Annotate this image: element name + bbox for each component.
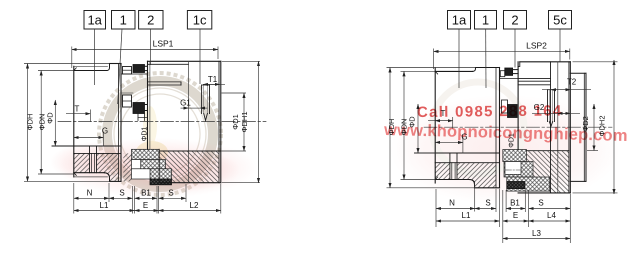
svg-text:LSP2: LSP2 — [526, 41, 547, 51]
svg-text:L1: L1 — [100, 201, 109, 210]
svg-text:L3: L3 — [532, 229, 541, 238]
svg-text:L2: L2 — [190, 201, 199, 210]
svg-text:T2: T2 — [567, 78, 577, 87]
svg-text:L4: L4 — [547, 211, 556, 220]
svg-text:Call 0985 288 164: Call 0985 288 164 — [417, 102, 563, 121]
svg-text:B1: B1 — [510, 199, 520, 208]
svg-text:E: E — [513, 211, 518, 220]
svg-text:B1: B1 — [141, 189, 151, 198]
svg-text:1: 1 — [120, 13, 127, 28]
svg-text:ΦD1: ΦD1 — [142, 127, 149, 142]
svg-text:ΦDH: ΦDH — [26, 114, 35, 131]
svg-text:S: S — [119, 189, 124, 198]
svg-text:LSP1: LSP1 — [153, 39, 174, 49]
svg-text:S: S — [168, 189, 173, 198]
svg-text:S: S — [538, 199, 543, 208]
svg-text:L1: L1 — [462, 211, 471, 220]
svg-text:E: E — [143, 201, 148, 210]
svg-text:5c: 5c — [553, 13, 567, 28]
svg-text:G: G — [102, 127, 108, 136]
svg-text:S: S — [485, 199, 490, 208]
svg-text:1a: 1a — [452, 13, 467, 28]
svg-text:1: 1 — [482, 13, 489, 28]
svg-text:ΦD1: ΦD1 — [231, 114, 240, 130]
svg-text:1c: 1c — [193, 13, 207, 28]
svg-text:ΦDH1: ΦDH1 — [240, 112, 249, 133]
svg-text:ΦD: ΦD — [46, 112, 55, 124]
svg-text:T: T — [75, 105, 80, 114]
svg-text:2: 2 — [147, 13, 154, 28]
svg-text:N: N — [449, 199, 455, 208]
svg-text:G1: G1 — [180, 99, 191, 108]
svg-text:N: N — [87, 189, 93, 198]
svg-text:T1: T1 — [208, 75, 218, 84]
svg-text:1a: 1a — [87, 13, 102, 28]
svg-text:2: 2 — [511, 13, 518, 28]
